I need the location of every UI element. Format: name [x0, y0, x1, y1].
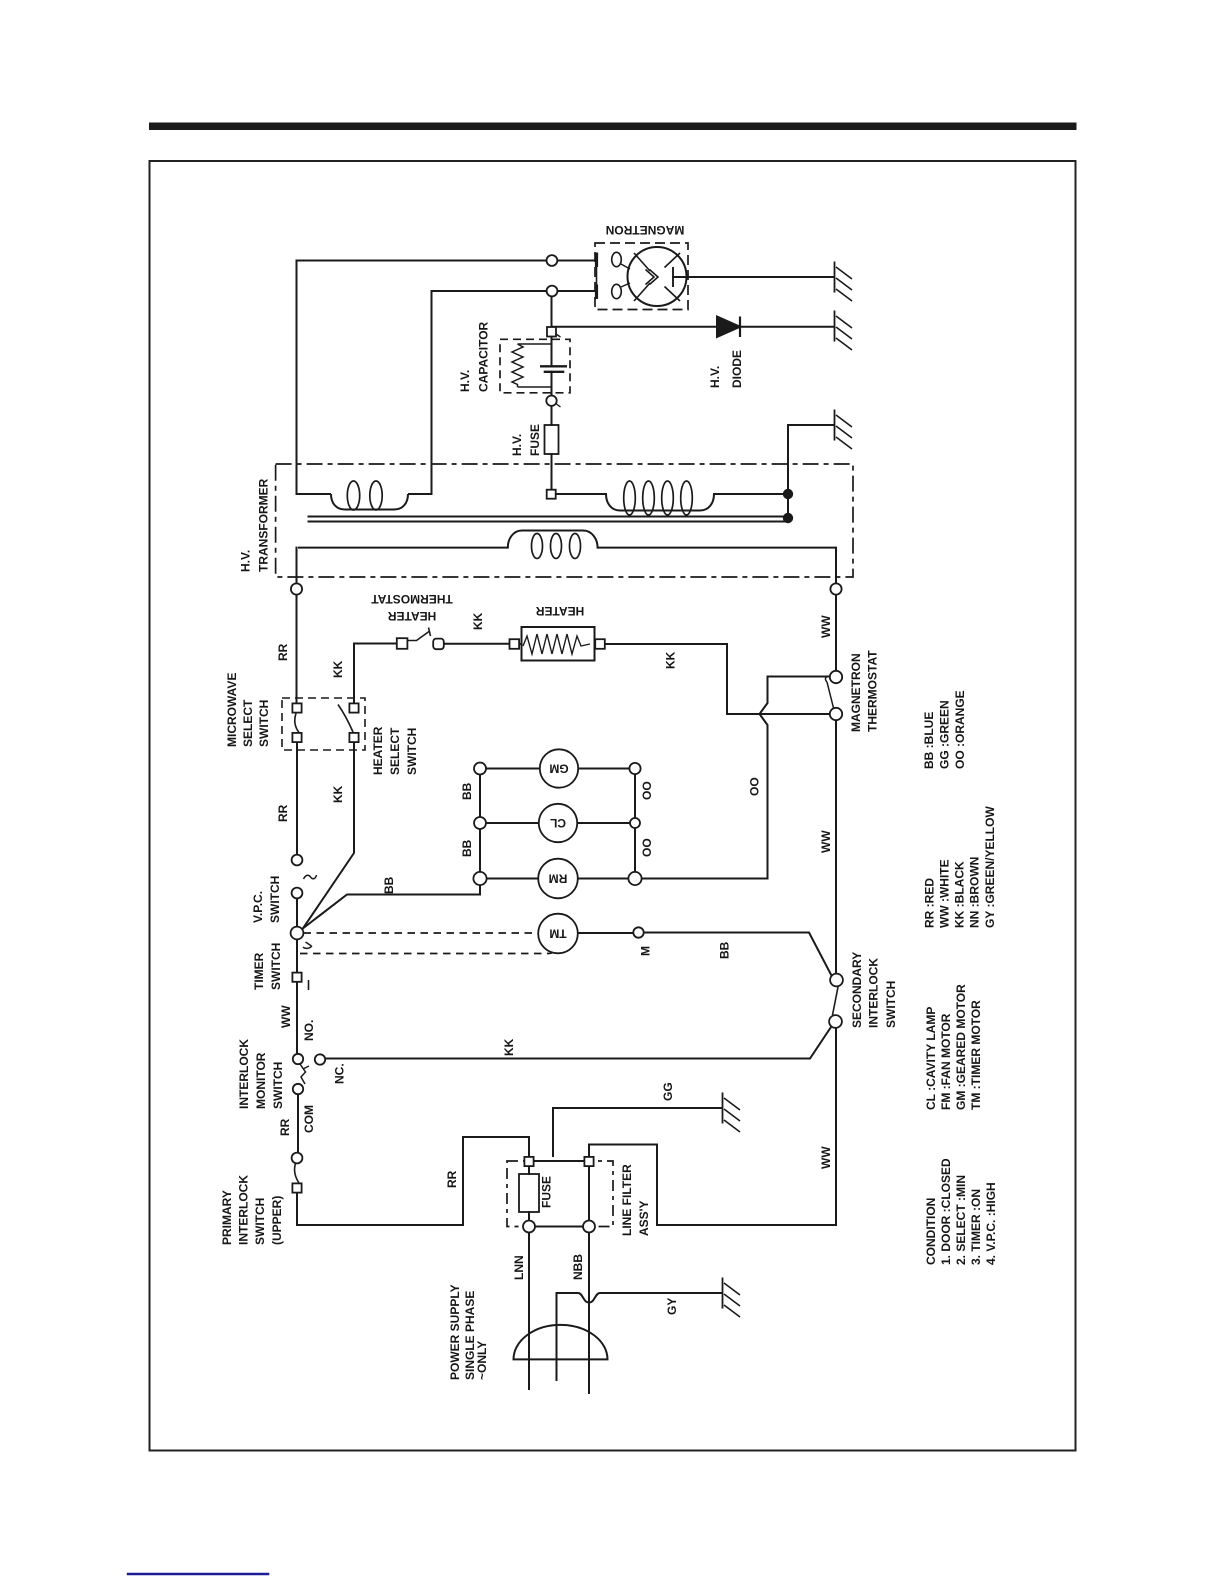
- svg-text:DIODE: DIODE: [730, 350, 744, 388]
- svg-text:GM :GEARED MOTOR: GM :GEARED MOTOR: [954, 984, 968, 1110]
- svg-text:RR: RR: [278, 1118, 292, 1136]
- svg-text:SWITCH: SWITCH: [253, 1198, 267, 1245]
- svg-text:OO: OO: [640, 838, 654, 857]
- svg-text:FM :FAN MOTOR: FM :FAN MOTOR: [939, 1013, 953, 1110]
- svg-text:MONITOR: MONITOR: [254, 1052, 268, 1109]
- svg-text:RR: RR: [276, 804, 290, 822]
- svg-text:WW :WHITE: WW :WHITE: [938, 859, 952, 928]
- svg-text:OO :ORANGE: OO :ORANGE: [953, 690, 967, 769]
- svg-text:V.P.C.: V.P.C.: [251, 891, 265, 923]
- svg-text:NC.: NC.: [333, 1063, 347, 1084]
- svg-text:H.V.: H.V.: [458, 370, 472, 392]
- svg-text:POWER SUPPLY: POWER SUPPLY: [448, 1284, 462, 1380]
- svg-text:THERMOSTAT: THERMOSTAT: [371, 592, 453, 606]
- svg-text:THERMOSTAT: THERMOSTAT: [866, 650, 880, 732]
- svg-text:H.V.: H.V.: [510, 434, 524, 456]
- svg-text:INTERLOCK: INTERLOCK: [237, 1039, 251, 1109]
- svg-text:KK :BLACK: KK :BLACK: [953, 861, 967, 928]
- svg-text:4. V.P.C. :HIGH: 4. V.P.C. :HIGH: [984, 1182, 998, 1265]
- svg-text:NO.: NO.: [302, 1020, 316, 1041]
- svg-text:KK: KK: [471, 612, 485, 630]
- svg-text:TM: TM: [549, 927, 566, 941]
- svg-text:KK: KK: [502, 1038, 516, 1056]
- svg-text:FUSE: FUSE: [540, 1176, 554, 1208]
- svg-text:ASS'Y: ASS'Y: [637, 1200, 651, 1236]
- svg-text:CL: CL: [550, 816, 566, 830]
- svg-text:SWITCH: SWITCH: [271, 1062, 285, 1109]
- svg-text:CONDITION: CONDITION: [924, 1198, 938, 1265]
- svg-text:TIMER: TIMER: [252, 952, 266, 990]
- svg-text:LNN: LNN: [512, 1255, 526, 1280]
- svg-text:NN :BROWN: NN :BROWN: [968, 857, 982, 928]
- svg-text:RM: RM: [549, 872, 568, 886]
- svg-text:2. SELECT :MIN: 2. SELECT :MIN: [954, 1175, 968, 1265]
- svg-text:TRANSFORMER: TRANSFORMER: [257, 478, 271, 572]
- svg-text:HEATER: HEATER: [535, 604, 584, 618]
- svg-text:WW: WW: [819, 830, 833, 853]
- svg-text:M: M: [639, 946, 653, 956]
- svg-text:SWITCH: SWITCH: [268, 876, 282, 923]
- svg-text:WW: WW: [819, 1146, 833, 1169]
- svg-text:NBB: NBB: [571, 1254, 585, 1280]
- svg-text:TM :TIMER MOTOR: TM :TIMER MOTOR: [969, 1000, 983, 1110]
- svg-text:LINE FILTER: LINE FILTER: [620, 1164, 634, 1236]
- svg-text:GG :GREEN: GG :GREEN: [938, 700, 952, 769]
- svg-text:BB: BB: [382, 876, 396, 894]
- svg-text:FUSE: FUSE: [528, 424, 542, 456]
- svg-text:MAGNETRON: MAGNETRON: [849, 653, 863, 732]
- svg-text:H.V.: H.V.: [239, 550, 253, 572]
- svg-text:H.V.: H.V.: [708, 366, 722, 388]
- svg-text:RR: RR: [445, 1170, 459, 1188]
- svg-text:BB :BLUE: BB :BLUE: [922, 712, 936, 769]
- svg-text:GY: GY: [665, 1298, 679, 1315]
- svg-text:SWITCH: SWITCH: [257, 700, 271, 747]
- svg-text:MAGNETRON: MAGNETRON: [606, 223, 685, 237]
- svg-text:INTERLOCK: INTERLOCK: [867, 958, 881, 1028]
- svg-text:WW: WW: [819, 615, 833, 638]
- svg-text:BB: BB: [718, 941, 732, 959]
- svg-text:MICROWAVE: MICROWAVE: [225, 673, 239, 747]
- svg-text:PRIMARY: PRIMARY: [220, 1190, 234, 1245]
- svg-text:BB: BB: [460, 839, 474, 857]
- svg-text:OO: OO: [640, 781, 654, 800]
- svg-text:KK: KK: [331, 660, 345, 678]
- svg-text:RR: RR: [276, 643, 290, 661]
- svg-text:GY :GREEN/YELLOW: GY :GREEN/YELLOW: [983, 806, 997, 928]
- svg-text:KK: KK: [331, 785, 345, 803]
- svg-text:KK: KK: [664, 651, 678, 669]
- svg-text:GM: GM: [549, 762, 568, 776]
- svg-text:CL :CAVITY LAMP: CL :CAVITY LAMP: [924, 1007, 938, 1110]
- svg-text:CAPACITOR: CAPACITOR: [477, 321, 491, 392]
- svg-text:~ONLY: ~ONLY: [475, 1341, 489, 1380]
- svg-text:WW: WW: [279, 1005, 293, 1028]
- svg-text:BB: BB: [460, 782, 474, 800]
- svg-text:OO: OO: [748, 777, 762, 796]
- svg-text:3. TIMER :ON: 3. TIMER :ON: [969, 1189, 983, 1265]
- svg-text:SELECT: SELECT: [241, 699, 255, 747]
- svg-text:SWITCH: SWITCH: [405, 728, 419, 775]
- svg-text:(UPPER): (UPPER): [270, 1196, 284, 1245]
- svg-text:HEATER: HEATER: [387, 609, 436, 623]
- svg-text:SELECT: SELECT: [388, 727, 402, 775]
- svg-text:COM: COM: [302, 1105, 316, 1133]
- svg-text:GG: GG: [661, 1082, 675, 1101]
- svg-text:1. DOOR :CLOSED: 1. DOOR :CLOSED: [939, 1158, 953, 1265]
- svg-text:SWITCH: SWITCH: [269, 943, 283, 990]
- svg-text:RR :RED: RR :RED: [923, 878, 937, 928]
- svg-text:SWITCH: SWITCH: [884, 981, 898, 1028]
- svg-text:SECONDARY: SECONDARY: [850, 952, 864, 1028]
- svg-text:HEATER: HEATER: [371, 726, 385, 775]
- svg-text:INTERLOCK: INTERLOCK: [237, 1175, 251, 1245]
